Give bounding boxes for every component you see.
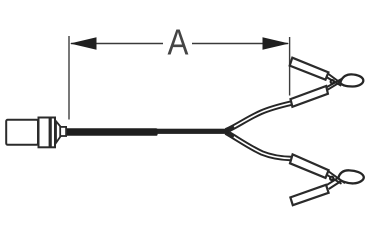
svg-text:A: A [168, 22, 189, 63]
